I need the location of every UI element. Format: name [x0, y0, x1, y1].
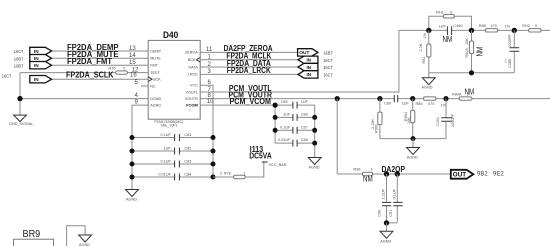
capacitor C88	[278, 138, 308, 147]
svg-text:1UF: 1UF	[402, 102, 410, 106]
svg-text:C86: C86	[301, 112, 308, 116]
svg-text:VCOM: VCOM	[186, 102, 199, 107]
svg-text:nc: nc	[189, 109, 193, 113]
svg-text:NM: NM	[443, 35, 453, 44]
ground AGND (VOUTR filter)	[407, 148, 420, 160]
capacitor C85	[281, 100, 309, 109]
svg-text:0: 0	[450, 11, 452, 15]
svg-text:C85: C85	[281, 100, 288, 104]
ground AGND (DA2OP caps)	[380, 231, 393, 243]
decoupling row1 wires	[132, 137, 213, 139]
decoupling left column wire (AGND)	[131, 105, 133, 189]
wire caps to AGND	[386, 223, 388, 232]
svg-text:BCK: BCK	[188, 58, 196, 62]
svg-text:AGND: AGND	[380, 239, 391, 243]
wire VCC pin 6	[200, 85, 213, 177]
wire VOUTL filter main line	[429, 29, 550, 31]
svg-text:SCK: SCK	[153, 78, 161, 82]
svg-text:0: 0	[123, 67, 125, 71]
svg-text:R89A: R89A	[452, 92, 462, 96]
wire FP2DA_MCLK	[200, 59, 298, 61]
wire FP2DA_DEMP	[52, 50, 149, 52]
wire PCM_VCOM	[200, 104, 275, 106]
ground GND_SIGNAL	[9, 115, 33, 126]
svg-text:2: 2	[220, 172, 222, 176]
svg-text:AGND: AGND	[150, 103, 161, 107]
capacitor C80 (series on VOUTR)	[384, 95, 409, 106]
svg-text:16B7: 16B7	[14, 56, 24, 61]
wire PCM_VOUTL	[200, 30, 429, 92]
svg-text:16C7: 16C7	[323, 72, 333, 77]
decoupling row2 wires	[132, 150, 213, 152]
svg-text:AGND: AGND	[422, 86, 433, 90]
wire DA2FP_ZEROA	[200, 51, 297, 53]
svg-text:FP2DA_FMT: FP2DA_FMT	[67, 57, 112, 66]
flag OUT (DA2OP)	[451, 170, 474, 179]
resistor R76	[109, 67, 128, 75]
svg-text:VOUTL: VOUTL	[186, 90, 198, 94]
svg-text:0.1UF: 0.1UF	[161, 133, 172, 137]
svg-text:1UF: 1UF	[439, 25, 447, 29]
svg-text:VOUTR: VOUTR	[185, 97, 198, 101]
resistor R903 10K NM	[465, 30, 485, 72]
svg-text:AGND: AGND	[126, 198, 137, 202]
decoupling row4 wires	[132, 176, 213, 178]
wire ground vertical	[19, 73, 21, 116]
junction rail	[411, 136, 416, 141]
flag IN (FP2DA_DATA)	[298, 63, 318, 70]
svg-text:1UF: 1UF	[301, 100, 309, 104]
svg-text:R96: R96	[354, 168, 361, 172]
wire PCM_VOUTR	[200, 98, 550, 100]
svg-text:D40: D40	[163, 30, 178, 40]
svg-text:DATA: DATA	[189, 65, 199, 69]
svg-text:1%: 1%	[504, 58, 508, 63]
wire FP2DA_MUTE	[52, 57, 149, 59]
svg-text:1%: 1%	[423, 32, 427, 38]
wire FP2DA_FMT	[52, 64, 149, 66]
resistor RH1	[436, 11, 454, 19]
capacitor C401 2200PF	[436, 99, 455, 139]
svg-text:16B7: 16B7	[14, 63, 24, 68]
ground AGND (bottom left)	[79, 235, 92, 246]
capacitor C90 2.2UF	[378, 174, 392, 223]
svg-text:R88: R88	[479, 24, 486, 28]
capacitor C91 0.1UF	[387, 174, 403, 223]
flag IN (FP2DA_MUTE)	[30, 55, 52, 62]
svg-text:SML_1QF1: SML_1QF1	[161, 123, 178, 127]
svg-text:IN: IN	[307, 58, 312, 63]
svg-text:C84: C84	[184, 173, 191, 177]
ground AGND (decoupling)	[126, 190, 139, 202]
svg-text:16: 16	[130, 73, 137, 79]
svg-text:IN: IN	[34, 56, 39, 61]
VCOM row1 wires	[275, 104, 315, 106]
svg-text:VCC: VCC	[190, 84, 198, 88]
VCOM row4 wires	[275, 142, 315, 144]
wire FP2DA_DATA	[200, 66, 298, 68]
resistor R902 2.15K	[371, 99, 382, 139]
svg-text:DEMP: DEMP	[150, 49, 161, 53]
svg-text:NM: NM	[476, 46, 485, 56]
svg-text:1UF: 1UF	[164, 147, 172, 151]
svg-text:1: 1	[371, 168, 373, 172]
svg-text:IN: IN	[34, 49, 39, 54]
pin name SCK with clock mark	[148, 77, 161, 82]
svg-text:TEST: TEST	[150, 71, 160, 75]
svg-text:R902: R902	[374, 124, 378, 133]
wire TEST net (pin 12 pulldown)	[20, 72, 148, 74]
VCOM row2 wires	[275, 116, 315, 118]
junction ground node	[17, 96, 22, 101]
flag IN (FP2DA_SCLK)	[30, 76, 52, 83]
capacitor C87	[280, 125, 308, 134]
resistor RH2	[522, 24, 541, 32]
svg-text:C87: C87	[301, 125, 308, 129]
svg-text:RH1: RH1	[436, 11, 444, 15]
wire DA2OP row	[337, 173, 451, 175]
capacitor C81	[161, 133, 192, 141]
svg-text:OUT: OUT	[453, 172, 466, 179]
svg-text:0.01UF: 0.01UF	[159, 173, 172, 177]
svg-text:DC5VA: DC5VA	[249, 151, 272, 160]
svg-text:C88: C88	[301, 138, 308, 142]
svg-text:DGND: DGND	[150, 97, 161, 101]
wire RH1 bypass branch	[429, 16, 472, 30]
svg-text:MUTE: MUTE	[150, 57, 161, 61]
svg-text:2200PF: 2200PF	[451, 113, 455, 127]
svg-text:470: 470	[428, 102, 434, 106]
svg-text:R78: R78	[224, 172, 231, 176]
junction dots decoupling right	[211, 135, 216, 140]
svg-text:2.2K: 2.2K	[419, 43, 423, 51]
svg-text:16C7: 16C7	[2, 74, 12, 79]
svg-text:R903: R903	[465, 48, 469, 57]
svg-text:R81: R81	[422, 57, 426, 64]
resistor R89A NM	[452, 87, 475, 100]
flag IN (FP2DA_FMT)	[30, 62, 52, 69]
svg-text:11: 11	[206, 47, 213, 53]
svg-text:16C7: 16C7	[323, 58, 333, 63]
wire NC stub pin 5	[141, 85, 148, 87]
svg-text:9B2: 9B2	[477, 172, 488, 178]
svg-text:FMT: FMT	[150, 64, 158, 68]
capacitor C460 NM	[439, 24, 463, 44]
wire FP2DA_LRCK	[200, 73, 298, 75]
svg-text:1: 1	[244, 172, 246, 176]
svg-text:C460: C460	[453, 24, 462, 28]
wire R81 to AGND	[428, 73, 430, 78]
svg-text:1%: 1%	[505, 25, 511, 29]
svg-text:RH2: RH2	[522, 24, 530, 28]
svg-text:PCM_VCOM: PCM_VCOM	[230, 97, 272, 106]
op-amp D40 IC box	[148, 40, 200, 119]
svg-text:C82: C82	[184, 147, 191, 151]
svg-text:0.01UF: 0.01UF	[278, 138, 291, 142]
junction dots VCOM right column	[312, 115, 317, 120]
wire ground rail (VOUTR filter)	[380, 138, 446, 140]
resistor R85 470	[416, 97, 447, 108]
svg-text:IN: IN	[34, 63, 39, 68]
svg-text:2200PF: 2200PF	[508, 34, 512, 48]
wire DGND pin 4	[20, 98, 148, 100]
pin name BCK with clock mark	[188, 58, 200, 63]
power symbol VCC_BAR	[262, 162, 287, 167]
svg-text:16C7: 16C7	[14, 49, 24, 54]
svg-text:IN: IN	[34, 77, 39, 82]
svg-text:IN: IN	[307, 72, 312, 77]
ground AGND (VOUTL filter)	[422, 78, 436, 90]
svg-text:AGND: AGND	[407, 155, 418, 159]
flag OUT (DA2FP_ZEROA)	[298, 49, 318, 57]
flag IN (FP2DA_DEMP)	[30, 47, 52, 54]
resistor R78	[220, 172, 246, 179]
svg-text:9E2: 9E2	[493, 172, 504, 178]
flag IN (FP2DA_LRCK)	[298, 71, 318, 78]
wire ground rail (VOUTL filter)	[429, 51, 515, 73]
svg-text:16C7: 16C7	[323, 65, 333, 70]
svg-text:15: 15	[129, 60, 136, 66]
svg-text:GND_SIGNAL: GND_SIGNAL	[9, 122, 33, 126]
junction rail B	[469, 70, 474, 75]
junction dots VCOM left column	[273, 103, 278, 108]
junction dots DA2OP	[384, 171, 389, 176]
svg-text:13: 13	[129, 46, 136, 52]
svg-text:NM: NM	[363, 174, 373, 183]
wire rail to AGND	[412, 139, 414, 148]
svg-text:C83: C83	[184, 160, 191, 164]
svg-text:C90: C90	[378, 210, 382, 217]
svg-text:C91: C91	[389, 210, 393, 217]
flag IN (FP2DA_MCLK)	[298, 56, 318, 63]
svg-text:FP2DA_SCLK: FP2DA_SCLK	[66, 71, 114, 80]
ground AGND (VCOM caps)	[308, 158, 321, 170]
svg-text:IN: IN	[307, 65, 312, 70]
wire BR9 block ground	[67, 226, 86, 246]
svg-text:VCC_BAR: VCC_BAR	[269, 163, 287, 167]
svg-text:0.1UF: 0.1UF	[280, 125, 291, 129]
decoupling row3 wires	[132, 163, 213, 165]
capacitor C82	[164, 147, 192, 155]
wire AGND pin 9	[132, 104, 148, 106]
svg-text:0: 0	[535, 24, 537, 28]
resistor R81 2.2K	[419, 30, 431, 72]
VCOM cap bank right column	[314, 105, 316, 157]
svg-text:R85: R85	[416, 102, 423, 106]
svg-text:1UF: 1UF	[283, 112, 291, 116]
svg-text:C401: C401	[436, 117, 440, 126]
resistor R88 470 1%	[479, 24, 511, 32]
wire VOUTR to DA2OP	[336, 99, 338, 174]
junction DA2OP caps ground	[384, 220, 389, 225]
resistor R904 10K	[404, 99, 415, 139]
capacitor C86	[283, 112, 308, 121]
capacitor C84	[159, 173, 192, 181]
junction node B	[469, 28, 474, 33]
svg-text:14: 14	[129, 53, 136, 59]
wire FP2DA_SCLK	[52, 78, 149, 80]
resistor R96 NM	[354, 168, 374, 184]
capacitor C83	[161, 160, 192, 168]
svg-text:10K: 10K	[407, 117, 411, 124]
svg-text:ZEROA: ZEROA	[185, 51, 198, 55]
svg-text:2.2UF: 2.2UF	[382, 188, 386, 199]
svg-text:C80: C80	[384, 102, 391, 106]
block BR9 box	[14, 239, 54, 246]
svg-text:NC: NC	[150, 84, 156, 88]
svg-text:LRCK: LRCK	[188, 73, 198, 77]
svg-text:AGND: AGND	[309, 165, 320, 169]
svg-text:0.1UF: 0.1UF	[393, 188, 397, 199]
VCOM cap bank left column	[274, 105, 276, 143]
svg-text:16B7: 16B7	[323, 50, 333, 55]
junction dots decoupling left	[130, 135, 135, 140]
svg-text:10: 10	[207, 99, 214, 105]
svg-text:C485: C485	[508, 59, 512, 68]
junction node C485	[512, 28, 517, 33]
svg-text:0.1UF: 0.1UF	[161, 160, 172, 164]
svg-text:BR9: BR9	[23, 228, 41, 240]
svg-text:NM: NM	[465, 87, 475, 96]
svg-text:C81: C81	[184, 133, 191, 137]
svg-text:10K: 10K	[465, 38, 469, 45]
wire VCC to VCC_BAR	[213, 162, 264, 177]
junction dots VOUTR row	[335, 96, 340, 101]
svg-text:470: 470	[491, 24, 497, 28]
svg-text:FP2DA_LRCK: FP2DA_LRCK	[227, 66, 271, 75]
VCOM row3 wires	[275, 129, 315, 131]
svg-text:OUT: OUT	[299, 50, 309, 56]
junction node A (VOUTL)	[426, 28, 431, 33]
capacitor C485 2200PF	[508, 30, 519, 68]
